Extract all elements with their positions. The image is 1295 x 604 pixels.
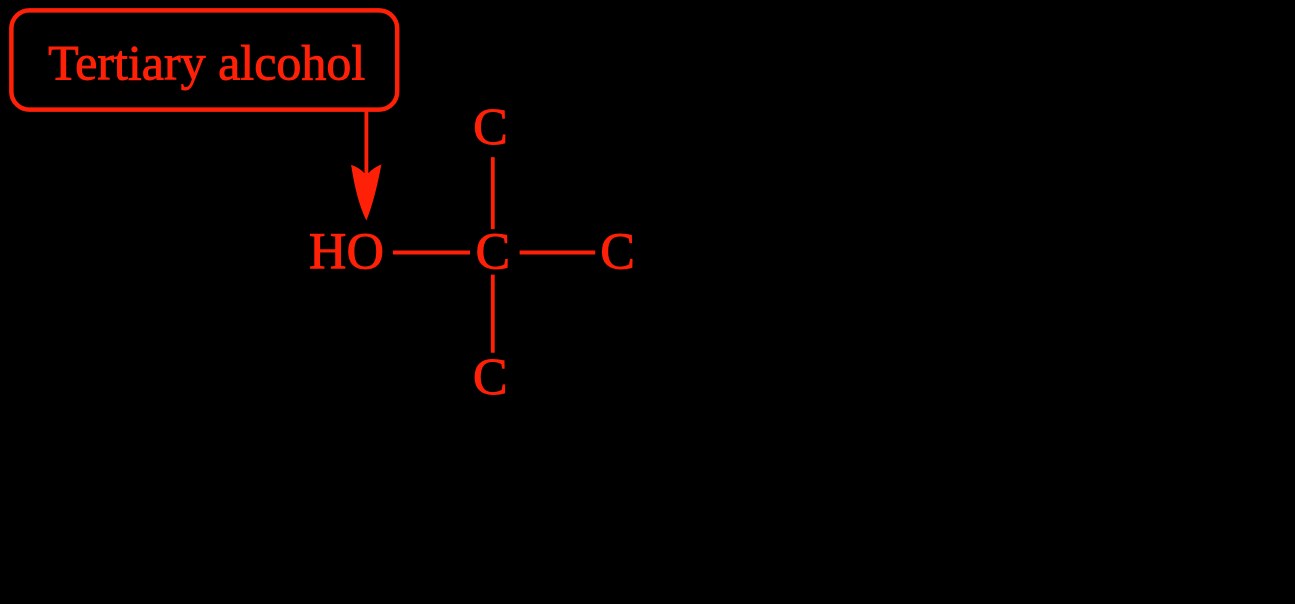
svg-text:C: C xyxy=(476,224,511,281)
label box: Tertiary alcohol xyxy=(11,10,397,109)
bond C-C right xyxy=(520,251,596,255)
arrow from label to HO xyxy=(351,109,381,221)
svg-text:C: C xyxy=(473,349,508,406)
bond C-C up xyxy=(491,157,495,229)
bond HO-C xyxy=(393,251,470,255)
svg-text:Tertiary alcohol: Tertiary alcohol xyxy=(48,35,365,91)
svg-text:C: C xyxy=(473,99,508,156)
svg-text:C: C xyxy=(600,224,635,281)
bond C-C down xyxy=(491,275,495,353)
svg-text:HO: HO xyxy=(309,224,384,281)
